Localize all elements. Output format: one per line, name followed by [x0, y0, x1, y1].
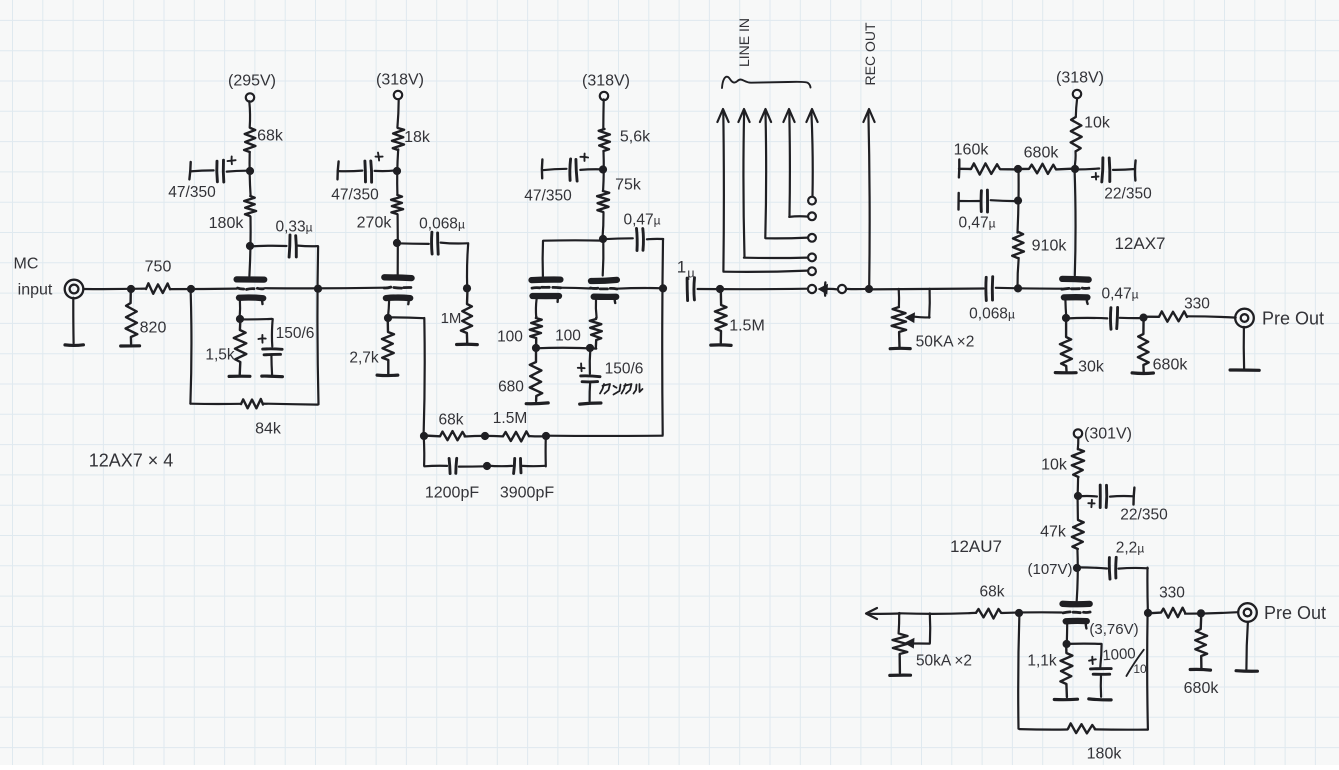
- ground jack top: [1230, 368, 1259, 372]
- contact selector 4: [808, 254, 816, 262]
- capacitor 47/350 #3: [542, 159, 603, 181]
- node decoupling 12AU7: [1074, 492, 1082, 500]
- node grid V1 / feedback: [187, 285, 195, 293]
- label (107V): [1027, 561, 1072, 578]
- wire 10k to 47k: [1076, 477, 1079, 519]
- wire V3 to output node: [617, 287, 664, 290]
- svg-text:330: 330: [1184, 295, 1210, 312]
- capacitor 0.068u #2: [986, 277, 1062, 301]
- label 330 bottom: [1159, 584, 1185, 601]
- label 0,33u: [275, 218, 312, 235]
- resistor 680: [530, 348, 542, 401]
- node rec out tap: [865, 285, 873, 293]
- wiper selector: [818, 282, 838, 295]
- node cathode bus right: [586, 344, 594, 352]
- node plate V1: [246, 242, 254, 250]
- polarity + 1000/10: [1089, 657, 1096, 664]
- svg-text:680k: 680k: [1184, 680, 1220, 697]
- resistor 100 A: [530, 317, 542, 348]
- resistor 1.5M feedback: [503, 431, 529, 441]
- brace LINE IN: [722, 77, 811, 88]
- label 180k bottom: [1087, 746, 1123, 763]
- node feedback mid: [481, 432, 489, 440]
- resistor 5.6k: [599, 129, 610, 151]
- node grid bus stage3: [463, 284, 471, 292]
- label 1000/10: [1102, 645, 1147, 676]
- label 330 top: [1184, 295, 1210, 312]
- ground 820: [121, 344, 140, 347]
- svg-text:input: input: [18, 282, 53, 299]
- wire cap branch right: [544, 436, 546, 466]
- wire 5.6k to 75k: [602, 151, 605, 190]
- wire B+ to 18k: [397, 100, 398, 128]
- label 47/350 #2: [331, 186, 379, 203]
- svg-text:(318V): (318V): [582, 73, 630, 90]
- polarity + 150/6 #2: [578, 363, 585, 371]
- wire B+ to 10k bottom: [1077, 438, 1080, 450]
- resistor 750: [146, 283, 170, 294]
- ground 1000/10: [1089, 699, 1111, 700]
- wire feedback loop V1: [190, 289, 317, 405]
- wire V1 output riser: [317, 246, 318, 404]
- svg-text:330: 330: [1159, 584, 1185, 601]
- capacitor 0.47u line-in: [960, 190, 1018, 212]
- ground 1.5k: [229, 375, 250, 378]
- resistor 330 bottom: [1148, 608, 1185, 618]
- ground 680k out top: [1132, 371, 1153, 375]
- label 22/350 top: [1104, 185, 1152, 202]
- wire 68k to 180k: [250, 152, 251, 196]
- label 1.5M feedback: [493, 410, 527, 427]
- svg-text:150/6: 150/6: [276, 325, 315, 342]
- jack Pre Out top: [1235, 309, 1254, 328]
- label 820: [140, 320, 167, 337]
- wire 47k to plate V5: [1077, 549, 1078, 601]
- node cathode V4: [1062, 314, 1070, 322]
- polarity + 22/350 top: [1092, 173, 1099, 180]
- node decoupling 3: [599, 165, 607, 173]
- wire cathode to 1000/10: [1066, 644, 1102, 667]
- wire B+ to 5.6k: [602, 99, 605, 129]
- label 0,47u line-in: [958, 214, 995, 231]
- svg-text:0,068µ: 0,068µ: [419, 215, 465, 232]
- resistor 1M: [461, 289, 472, 344]
- wire cathode V1: [239, 300, 242, 316]
- svg-text:180k: 180k: [209, 215, 245, 232]
- svg-text:18k: 18k: [404, 129, 431, 146]
- wiper pot top: [905, 289, 930, 323]
- label 1.5M shunt: [729, 318, 765, 335]
- resistor 2.7k: [382, 318, 394, 374]
- wire J1 ground lead: [72, 298, 75, 344]
- ground 1M: [457, 343, 478, 347]
- wire 330 to jack bottom: [1185, 612, 1238, 614]
- label (318V) #1: [376, 72, 424, 89]
- label 30k: [1078, 359, 1105, 376]
- triode V5: [1063, 604, 1091, 629]
- label 3900pF: [500, 485, 554, 502]
- node decoupling 1: [246, 167, 254, 175]
- node output bottom: [1197, 609, 1205, 617]
- label 1,5k: [205, 346, 235, 363]
- resistor 180k: [244, 196, 256, 216]
- label 0,47u out top: [1101, 285, 1138, 302]
- label 68k feedback: [439, 411, 464, 428]
- resistor 160k: [959, 163, 1018, 174]
- label 180k: [209, 215, 245, 232]
- svg-text:22/350: 22/350: [1104, 185, 1152, 202]
- label 68k bottom: [980, 583, 1005, 600]
- capacitor 150/6 tantalum: [581, 348, 600, 401]
- node grid V4: [1014, 284, 1022, 292]
- wire plate feed V3A: [543, 240, 603, 276]
- resistor 47k: [1072, 520, 1084, 549]
- triode V1: [237, 279, 265, 304]
- label (301V): [1084, 426, 1132, 443]
- label 1M: [441, 310, 462, 327]
- arrow to selector bottom: [866, 608, 900, 619]
- svg-text:2,2µ: 2,2µ: [1116, 539, 1145, 556]
- wire 270k to plate V2: [397, 215, 399, 276]
- svg-text:(318V): (318V): [1056, 70, 1104, 87]
- label 84k: [255, 421, 282, 438]
- label 10k top: [1084, 115, 1111, 132]
- wire 910k up: [1018, 169, 1019, 233]
- label 47/350 #3: [524, 187, 572, 204]
- ground jack bottom: [1236, 669, 1257, 673]
- svg-text:1.5M: 1.5M: [493, 410, 527, 427]
- polarity + cap3: [580, 154, 588, 161]
- resistor 1.5M shunt: [715, 289, 727, 343]
- svg-text:0,33µ: 0,33µ: [275, 218, 312, 235]
- label 680: [498, 378, 524, 395]
- svg-text:150/6: 150/6: [605, 360, 644, 377]
- svg-text:(295V): (295V): [228, 73, 276, 90]
- svg-text:680k: 680k: [1024, 145, 1060, 162]
- node output bottom left: [1144, 609, 1152, 617]
- terminal B+ 318V #2: [600, 92, 608, 100]
- resistor 68k bottom: [976, 609, 1001, 619]
- svg-text:Pre Out: Pre Out: [1264, 603, 1326, 623]
- wire cathode V2 to divider: [389, 317, 425, 435]
- label 1200pF: [425, 485, 479, 502]
- wire cathode V2: [388, 301, 389, 317]
- label 680k coupling: [1024, 145, 1060, 162]
- capacitor 1u: [687, 278, 808, 301]
- svg-text:3900pF: 3900pF: [500, 485, 554, 502]
- arrow LINE IN 4: [783, 109, 808, 217]
- svg-text:50KA ×2: 50KA ×2: [916, 333, 975, 350]
- svg-text:100: 100: [555, 327, 581, 344]
- resistor 680k out top: [1138, 318, 1149, 372]
- label 10k bottom: [1041, 457, 1068, 474]
- polarity + 150/6 #1: [258, 335, 265, 343]
- terminal 0.47u line-in: [957, 193, 960, 210]
- contact selector 2: [808, 212, 816, 220]
- svg-text:1200pF: 1200pF: [425, 485, 479, 502]
- wiper pot bottom: [904, 613, 930, 648]
- node output top: [1139, 314, 1147, 322]
- resistor 1.1k: [1060, 644, 1072, 697]
- svg-text:MC: MC: [14, 256, 39, 273]
- capacitor 2.2u: [1079, 557, 1148, 613]
- label 47k: [1040, 524, 1067, 541]
- svg-text:10k: 10k: [1041, 457, 1068, 474]
- svg-text:180k: 180k: [1087, 746, 1123, 763]
- wire cathode V3b: [595, 300, 598, 318]
- label 680k out top: [1153, 357, 1189, 374]
- resistor 910k: [1012, 232, 1024, 258]
- svg-text:68k: 68k: [257, 128, 284, 145]
- label Pre Out top: [1262, 308, 1324, 328]
- resistor 180k bottom: [1068, 723, 1095, 733]
- capacitor 47/350 #1: [189, 160, 250, 182]
- wire B+ to 68k: [248, 101, 251, 127]
- capacitor 0.47u out top: [1066, 308, 1143, 330]
- svg-text:1: 1: [677, 257, 686, 276]
- svg-text:680k: 680k: [1153, 357, 1189, 374]
- resistor 68k feedback: [424, 431, 465, 440]
- svg-text:820: 820: [140, 320, 167, 337]
- polarity + cap1: [228, 156, 236, 164]
- svg-text:0,47µ: 0,47µ: [623, 211, 660, 228]
- jack Pre Out bottom: [1238, 603, 1257, 622]
- wire plate feed V3B: [602, 241, 605, 276]
- resistor 100 B: [590, 318, 602, 348]
- label 68k: [257, 128, 284, 145]
- node grid V5 feedback: [1015, 609, 1023, 617]
- ground 1.1k: [1054, 698, 1077, 702]
- label 50kA x2 bottom: [916, 652, 972, 669]
- label (318V) #3: [1056, 70, 1104, 87]
- capacitor 0.33u: [250, 235, 317, 257]
- svg-text:100: 100: [497, 328, 523, 345]
- capacitor 22/350 bottom: [1078, 485, 1135, 507]
- ground 2.7k: [377, 374, 398, 378]
- node input shunt: [127, 285, 135, 293]
- arrow LINE IN 3: [760, 109, 808, 238]
- potentiometer 50kA bottom: [893, 634, 908, 673]
- label 0,47u stage3: [623, 211, 660, 228]
- ground pot top: [890, 347, 910, 351]
- node feedback left: [420, 432, 428, 440]
- wire 180k to plate V1: [249, 217, 250, 276]
- svg-text:47/350: 47/350: [331, 186, 379, 203]
- label (295V): [228, 73, 276, 90]
- svg-text:10: 10: [1133, 662, 1147, 676]
- node cap branch mid: [483, 462, 491, 470]
- svg-text:22/350: 22/350: [1120, 506, 1168, 523]
- ground 680: [526, 401, 548, 405]
- resistor 10k bottom: [1072, 449, 1084, 477]
- terminal B+ 295V: [246, 93, 254, 101]
- svg-text:47/350: 47/350: [168, 184, 216, 201]
- resistor 330 top: [1144, 311, 1188, 321]
- potentiometer 50kA top: [892, 307, 907, 347]
- wire 68k to 1.5M: [465, 435, 503, 438]
- triode V3a: [532, 280, 561, 302]
- wire V1 to grid V2: [265, 287, 385, 290]
- label 270k: [357, 215, 393, 232]
- wire feedback loop 12AU7: [1018, 613, 1148, 730]
- node cathode V2: [384, 314, 392, 322]
- label 75k: [615, 177, 642, 194]
- wire node to 910k: [1017, 258, 1018, 289]
- contact selector wiper: [838, 285, 846, 293]
- node plate V5: [1073, 564, 1081, 572]
- svg-text:0,47µ: 0,47µ: [958, 214, 995, 231]
- label 150/6 #2: [605, 360, 644, 377]
- label 2,7k: [349, 349, 379, 366]
- svg-text:84k: 84k: [255, 421, 282, 438]
- svg-text:12AX7 × 4: 12AX7 × 4: [89, 450, 174, 470]
- wire jack top ground: [1243, 327, 1246, 368]
- label 100 B: [555, 327, 581, 344]
- svg-text:Pre Out: Pre Out: [1262, 308, 1324, 328]
- jack J1 MC input: [65, 280, 84, 299]
- node output stage3: [659, 284, 667, 292]
- ground J1: [65, 343, 83, 347]
- svg-text:(107V): (107V): [1027, 561, 1072, 578]
- node cathode V5: [1063, 640, 1071, 648]
- ground 30k: [1055, 371, 1076, 374]
- label tantalum katakana: [600, 384, 643, 395]
- svg-text:1,1k: 1,1k: [1027, 652, 1057, 669]
- label 150/6 #1: [276, 325, 315, 342]
- resistor 1.5k: [234, 319, 247, 375]
- label 0,068u #1: [419, 215, 465, 232]
- svg-text:10k: 10k: [1084, 115, 1111, 132]
- wire jack bottom ground: [1246, 622, 1248, 669]
- wire cathode to cap 150/6: [240, 319, 273, 347]
- arrow LINE IN 1: [717, 109, 807, 272]
- label 47/350 #1: [168, 184, 216, 201]
- wire selector to volume: [846, 287, 984, 290]
- wire cathode V4: [1064, 300, 1067, 318]
- resistor 680k coupling: [1018, 164, 1075, 174]
- wire B+ to 10k top: [1076, 99, 1077, 117]
- svg-text:1.5M: 1.5M: [729, 318, 765, 335]
- contact selector 5: [808, 267, 816, 275]
- svg-text:0,47µ: 0,47µ: [1101, 285, 1138, 302]
- resistor 68k plate: [244, 128, 255, 152]
- polarity + 22/350 bottom: [1088, 500, 1094, 507]
- resistor 820: [126, 289, 138, 344]
- label (318V) #2: [582, 73, 630, 90]
- capacitor 1200pF: [449, 458, 486, 473]
- resistor 75k: [597, 191, 609, 212]
- node cathode bus left: [532, 344, 540, 352]
- svg-text:47k: 47k: [1040, 524, 1067, 541]
- svg-text:910k: 910k: [1032, 238, 1068, 255]
- label 910k: [1032, 238, 1068, 255]
- svg-text:68k: 68k: [439, 411, 464, 428]
- wire cathode V3a: [535, 299, 538, 317]
- terminal B+ 301V: [1074, 429, 1082, 437]
- resistor 84k: [241, 399, 263, 408]
- terminal B+ 318V #3: [1073, 90, 1081, 98]
- svg-text:680: 680: [498, 378, 524, 395]
- label 12AU7: [950, 537, 1002, 556]
- node 160k junction: [1014, 165, 1022, 173]
- label MC input: [14, 256, 53, 299]
- wire grid line V5: [900, 612, 1062, 614]
- capacitor 3900pF: [487, 458, 545, 473]
- node feedback right: [542, 432, 550, 440]
- wire feedback to V3 cathode bus: [530, 435, 663, 438]
- ground 680k bottom: [1190, 668, 1210, 672]
- contact selector common: [808, 285, 816, 293]
- wire pot bottom lead: [897, 613, 900, 634]
- node plate V3: [599, 235, 607, 243]
- capacitor 22/350 top: [1074, 158, 1135, 182]
- ground 1.5M shunt: [711, 343, 731, 347]
- node plate V2: [393, 239, 401, 247]
- label 12AX7 x4: [89, 450, 174, 470]
- label 160k: [954, 142, 990, 159]
- svg-text:270k: 270k: [357, 215, 393, 232]
- svg-text:1M: 1M: [441, 310, 462, 327]
- label 18k: [404, 129, 431, 146]
- wire grid link V3: [559, 287, 591, 290]
- ground pot bottom: [890, 674, 911, 677]
- wire J1 to grid V1: [84, 288, 237, 291]
- capacitor 47/350 #2: [338, 161, 397, 182]
- polarity + cap2: [376, 153, 383, 161]
- label 50KA x2 top: [916, 333, 975, 350]
- label (3,76V): [1089, 621, 1138, 638]
- terminal 160k: [958, 160, 961, 178]
- arrow LINE IN 5: [806, 109, 817, 196]
- resistor 10k top: [1071, 117, 1082, 151]
- wire 18k to 270k: [397, 149, 398, 194]
- svg-text:50kA ×2: 50kA ×2: [916, 652, 972, 669]
- svg-text:75k: 75k: [615, 177, 642, 194]
- wire 75k to plates V3: [602, 213, 603, 240]
- wire riser 663: [661, 239, 664, 435]
- svg-text:(301V): (301V): [1084, 426, 1132, 443]
- label 22/350 bottom: [1120, 506, 1168, 523]
- wire cathode V5: [1066, 625, 1069, 644]
- label 680k bottom: [1184, 680, 1220, 697]
- label 0,068u #2: [969, 305, 1015, 322]
- svg-text:160k: 160k: [954, 142, 990, 159]
- triode V2: [384, 277, 411, 304]
- svg-text:0,068µ: 0,068µ: [969, 305, 1015, 322]
- arrow LINE IN 2: [738, 109, 807, 258]
- wire 330 to jack top: [1187, 316, 1236, 317]
- svg-text:1000: 1000: [1102, 645, 1136, 664]
- svg-text:750: 750: [145, 259, 172, 276]
- node 0.47u tap: [1014, 197, 1022, 205]
- resistor 680k bottom: [1195, 613, 1207, 668]
- label 100 A: [497, 328, 523, 345]
- label LINE IN: [736, 18, 752, 67]
- svg-text:47/350: 47/350: [524, 187, 572, 204]
- label REC OUT: [862, 22, 878, 85]
- capacitor 150/6 #1: [263, 349, 282, 375]
- triode V4: [1062, 279, 1089, 304]
- label 5,6k: [620, 129, 651, 146]
- label 1u: [677, 257, 695, 280]
- contact selector 1: [808, 197, 816, 205]
- terminal B+ 318V #1: [394, 91, 402, 99]
- label Pre Out bottom: [1264, 603, 1326, 623]
- svg-text:12AX7: 12AX7: [1114, 234, 1165, 253]
- capacitor 0.068u #1: [396, 232, 468, 288]
- svg-text:µ: µ: [687, 266, 695, 281]
- wire pot top lead: [898, 289, 901, 307]
